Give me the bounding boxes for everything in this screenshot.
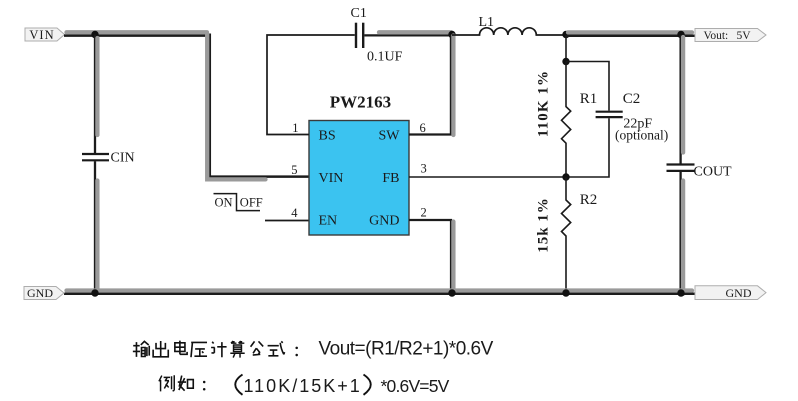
full-width open paren — [235, 375, 242, 395]
wire VIN rail to jog (highlighted) — [64, 32, 210, 35]
inductor L1 — [452, 28, 566, 35]
node B junction (SW/L1) — [448, 31, 455, 38]
wire jog to VIN pin 5 (highlighted) — [207, 34, 309, 180]
svg-text:4: 4 — [291, 206, 298, 220]
node E junction (R1/C2 top) — [562, 58, 569, 65]
junction GND-pin2 — [448, 289, 455, 296]
svg-text:PW2163: PW2163 — [330, 93, 391, 112]
svg-text:ON: ON — [215, 196, 233, 210]
node D junction (COUT top) — [677, 31, 684, 38]
formula line 1 Chinese: 输出电压计算公式： — [133, 341, 298, 358]
svg-text:FB: FB — [382, 171, 399, 186]
wire GND pin 2 to rail (highlighted) — [409, 220, 453, 293]
wire EN pin 4 — [265, 220, 309, 222]
resistor R1 — [562, 62, 571, 178]
svg-text:C1: C1 — [351, 6, 367, 21]
capacitor C2 — [596, 112, 623, 117]
GND rail (highlighted) — [64, 291, 695, 294]
capacitor COUT — [667, 165, 695, 171]
wire C1 to node B (highlighted) — [364, 32, 452, 35]
svg-text:110K 1%: 110K 1% — [536, 70, 552, 137]
net label Vout 5V — [695, 29, 766, 43]
node C junction (L1 out) — [562, 31, 569, 38]
full-width close paren — [364, 375, 371, 395]
wire node C to Vout (highlighted) — [566, 32, 695, 35]
svg-text:BS: BS — [319, 129, 336, 144]
junction GND-COUT — [677, 289, 684, 296]
svg-text:Vout=(R1/R2+1)*0.6V: Vout=(R1/R2+1)*0.6V — [319, 339, 494, 360]
svg-text:R1: R1 — [580, 91, 598, 107]
capacitor CIN — [82, 154, 109, 160]
svg-text:3: 3 — [421, 162, 427, 176]
wire BS pin 1 to C1 — [267, 35, 355, 135]
wire FB pin 3 — [409, 176, 566, 178]
net label VIN — [25, 28, 65, 42]
svg-text:VIN: VIN — [319, 171, 344, 186]
svg-text:0.1UF: 0.1UF — [367, 50, 403, 65]
wire node B to SW pin 6 (highlighted) — [409, 35, 453, 135]
svg-text:Vout:: Vout: — [704, 30, 729, 42]
svg-text:CIN: CIN — [111, 151, 135, 166]
net label GND right — [695, 286, 766, 300]
svg-text:2: 2 — [421, 206, 427, 220]
svg-text:5: 5 — [291, 163, 297, 177]
svg-text:R2: R2 — [580, 192, 598, 208]
svg-text:*0.6V=5V: *0.6V=5V — [381, 376, 450, 396]
junction GND-R2 — [562, 289, 569, 296]
svg-text:110K/15K+1: 110K/15K+1 — [244, 376, 362, 396]
svg-text:VIN: VIN — [29, 28, 54, 42]
svg-text:GND: GND — [726, 286, 752, 300]
net label GND left — [24, 286, 64, 300]
wire node C to node E — [565, 35, 567, 62]
svg-text:5V: 5V — [737, 30, 752, 42]
svg-text:GND: GND — [369, 214, 399, 229]
resistor R2 — [562, 177, 571, 293]
svg-text:SW: SW — [379, 129, 401, 144]
capacitor C1 — [356, 23, 363, 48]
node F junction (FB/R1/R2) — [562, 173, 569, 180]
svg-text:GND: GND — [27, 286, 53, 300]
wire node D to COUT (highlighted) — [681, 35, 684, 164]
wire node A to CIN — [95, 35, 97, 154]
wire CIN to GND rail — [95, 161, 97, 293]
svg-text:(optional): (optional) — [615, 128, 668, 143]
wire COUT to GND rail (highlighted) — [681, 172, 684, 294]
svg-text:1: 1 — [292, 121, 298, 135]
svg-text:15k 1%: 15k 1% — [536, 197, 552, 253]
svg-text:C2: C2 — [623, 91, 641, 107]
svg-text:EN: EN — [319, 214, 338, 229]
switch ON/OFF — [214, 194, 263, 211]
junction GND-CIN — [91, 289, 98, 296]
wire C2 to node F — [566, 118, 609, 177]
svg-text:6: 6 — [420, 121, 426, 135]
op IC U1 PW2163 body — [309, 93, 409, 236]
formula line 2 Chinese: 例如： — [159, 375, 206, 391]
svg-text:OFF: OFF — [240, 196, 263, 210]
node A junction (VIN/CIN) — [91, 31, 98, 38]
svg-text:COUT: COUT — [694, 165, 733, 180]
svg-text:L1: L1 — [479, 15, 495, 30]
wire node E to C2 — [566, 62, 609, 111]
